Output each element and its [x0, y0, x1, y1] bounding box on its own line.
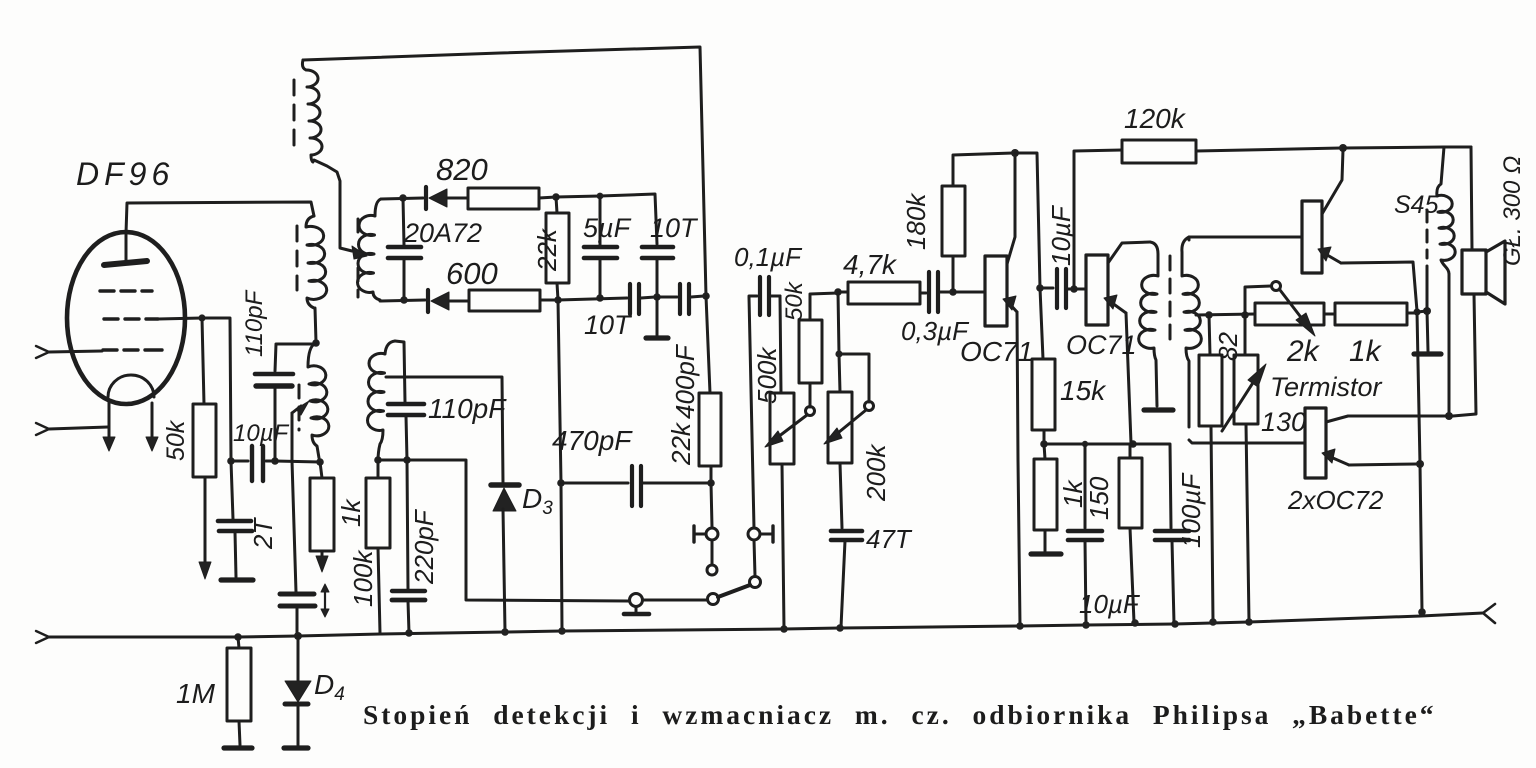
capacitor 2T with ground	[218, 461, 253, 580]
transistor Q1 OC71	[953, 149, 1024, 630]
svg-text:1k: 1k	[1349, 335, 1383, 368]
wire: tap arrow riser	[292, 401, 309, 461]
wire: coil bottom to tuned node	[312, 308, 320, 347]
capacitor (tuning, unlabeled)	[388, 198, 421, 300]
capacitor 400pF	[657, 284, 710, 314]
wire: emitter rail to bus	[1417, 312, 1426, 616]
resistor 4.7k	[838, 282, 926, 304]
wire: bottom supply bus	[36, 604, 1495, 643]
potentiometer 2k (rheostat)	[1245, 282, 1335, 337]
svg-text:5µF: 5µF	[583, 213, 632, 243]
svg-text:OC71: OC71	[1066, 330, 1137, 360]
capacitor 5uF	[584, 196, 617, 302]
wire: detector node to switch line	[378, 460, 629, 601]
ground stub (emitter node)	[1414, 266, 1441, 354]
ground stub of T3 primary	[1144, 407, 1173, 412]
inductor L2 (detector transformer secondary w/ tap arrow)	[308, 343, 329, 458]
wire: secondary bottom lead	[380, 296, 425, 304]
capacitor 110pF (IF bypass)	[255, 344, 316, 465]
diode D1 (20A72 upper)	[426, 187, 468, 209]
capacitor 220pF	[392, 456, 425, 637]
wire: primary to secondary tap arrow	[314, 160, 367, 259]
svg-text:150: 150	[1084, 476, 1114, 520]
resistor 820	[468, 188, 560, 209]
core of S45 (dashed)	[1426, 210, 1429, 258]
capacitor 10uF	[231, 446, 272, 481]
svg-text:200k: 200k	[861, 443, 891, 502]
grounded terminal circle	[624, 594, 649, 615]
svg-text:10T: 10T	[584, 310, 633, 340]
core of T3 (dashed)	[1169, 256, 1172, 340]
wire: secondary top to upper OC72 base	[1189, 237, 1302, 240]
capacitor 470pF	[561, 466, 709, 506]
wire: collector node to coupling	[1015, 153, 1044, 292]
wire: 600 branch down line	[557, 300, 566, 635]
wire: secondary top lead	[381, 194, 423, 202]
capacitor 100uF	[1133, 444, 1189, 628]
svg-text:10µF: 10µF	[1046, 204, 1076, 266]
transistor Q4 OC72 (lower)	[1305, 408, 1446, 478]
resistor 22k (volume feed)	[699, 296, 721, 527]
svg-text:Termistor: Termistor	[1270, 372, 1383, 402]
svg-text:50k: 50k	[162, 419, 190, 461]
inductor L5 (AM detector coil)	[368, 341, 395, 461]
svg-text:1k: 1k	[336, 498, 366, 527]
capacitor 10uF (emitter bypass)	[1068, 441, 1102, 629]
svg-text:820: 820	[436, 152, 488, 187]
inductor T3 secondary	[1182, 237, 1201, 427]
svg-text:220pF: 220pF	[409, 508, 439, 585]
diode D4 with ground	[284, 632, 311, 748]
resistor 1k (divider) with ground	[1031, 444, 1061, 554]
loudspeaker GL 300 ohm	[1453, 147, 1505, 416]
transistor Q3 OC72 (upper)	[1302, 150, 1417, 311]
svg-text:2xOC72: 2xOC72	[1287, 485, 1384, 515]
wire: grid lead to node	[158, 314, 206, 321]
svg-text:180k: 180k	[901, 192, 931, 250]
wire: top branch to 10T	[556, 193, 657, 244]
switch contact A (from detector)	[694, 526, 718, 575]
svg-text:400pF: 400pF	[670, 343, 700, 419]
core of top transformer (dashed)	[293, 80, 296, 146]
resistor 1k (detector load)	[310, 462, 334, 572]
ground stub under 10T	[646, 297, 668, 338]
svg-text:120k: 120k	[1124, 103, 1187, 134]
potentiometer 500k (volume)	[765, 296, 815, 633]
svg-text:500k: 500k	[752, 346, 782, 404]
capacitor 47T	[831, 531, 862, 632]
wire: top supply line	[303, 47, 706, 296]
resistor 15k	[1032, 288, 1055, 448]
capacitor 10uF (interstage coupling)	[1040, 269, 1078, 308]
svg-text:Stopień detekcji i wzmacniacz: Stopień detekcji i wzmacniacz m. cz. odb…	[363, 699, 1434, 730]
svg-text:100µF: 100µF	[1176, 472, 1206, 548]
thermistor 130	[1222, 315, 1266, 626]
svg-text:15k: 15k	[1060, 375, 1107, 406]
inductor T3 primary (driver transformer)	[1139, 242, 1158, 406]
svg-text:22k: 22k	[532, 227, 562, 272]
resistor 50k (grid leak)	[193, 318, 216, 579]
capacitor 0.1uF (coupling to volume pot)	[749, 277, 780, 528]
svg-text:DF96: DF96	[76, 156, 174, 192]
svg-text:2k: 2k	[1286, 335, 1321, 368]
svg-text:D3: D3	[522, 483, 553, 519]
resistor 1k (emitter bias)	[1335, 303, 1431, 325]
resistor 150	[1119, 444, 1142, 627]
resistor 600	[469, 290, 562, 311]
switch contact B (to volume)	[748, 526, 773, 588]
svg-text:470pF: 470pF	[552, 425, 633, 456]
resistor 82	[1199, 315, 1222, 626]
wire: top rail to output	[1343, 147, 1471, 148]
inductor L3 (top coil, ratio detector primary)	[302, 60, 322, 162]
wire: anode lead to IF transformer	[126, 202, 314, 233]
inductor L1 (IF transformer primary, anode side)	[306, 216, 327, 308]
svg-text:S45: S45	[1394, 191, 1439, 219]
svg-text:600: 600	[446, 256, 498, 291]
svg-text:0,1µF: 0,1µF	[734, 242, 803, 272]
svg-text:2T: 2T	[248, 517, 278, 550]
wire: secondary bottom to lower OC72 base	[1189, 440, 1304, 443]
svg-text:22k: 22k	[666, 421, 696, 466]
transistor Q2 OC71	[1074, 242, 1150, 443]
resistor 100k	[366, 456, 390, 633]
inductor L4 (ratio detector secondary)	[358, 199, 381, 300]
wire: grid node down to cathode row	[202, 318, 235, 465]
svg-text:47T: 47T	[866, 524, 913, 554]
svg-text:10T: 10T	[650, 213, 699, 243]
resistor 120k (output feedback)	[1074, 140, 1347, 289]
svg-text:20A72: 20A72	[403, 218, 482, 248]
wire: cathode row to 1k node	[275, 458, 324, 466]
diode D3	[491, 485, 519, 636]
capacitor 110pF (detector tank)	[388, 341, 424, 460]
svg-text:82: 82	[1213, 332, 1243, 361]
svg-text:GŁ. 300 Ω: GŁ. 300 Ω	[1499, 156, 1526, 266]
resistor 22k (between branches)	[546, 197, 569, 300]
capacitor 0.3uF	[929, 272, 957, 312]
capacitor 10T (horizontal)	[630, 284, 661, 314]
wire: S45 bottom to collector node	[1445, 274, 1453, 420]
resistor 1M	[224, 633, 252, 748]
diode D2 (20A72 lower)	[428, 290, 469, 312]
svg-text:110pF: 110pF	[241, 289, 268, 357]
core of IF transformer (dashed)	[296, 226, 299, 290]
wire: secondary tap	[1196, 311, 1255, 319]
transformer S45 (output choke)	[1437, 147, 1455, 274]
svg-text:OC71: OC71	[960, 336, 1033, 367]
svg-text:110pF: 110pF	[428, 393, 507, 424]
svg-text:D4: D4	[314, 669, 345, 705]
svg-text:130: 130	[1261, 407, 1306, 437]
svg-text:1M: 1M	[176, 678, 216, 709]
wire: emitter node row	[1044, 440, 1137, 448]
core of detector transformer lower (dashed)	[298, 385, 301, 430]
core of ratio detector (dashed)	[357, 219, 360, 297]
trimmer capacitor (variable)	[280, 461, 329, 634]
capacitor 10T (vertical)	[642, 247, 673, 296]
svg-text:50k: 50k	[781, 280, 808, 321]
vacuum tube V1 DF96	[67, 232, 185, 451]
wire: filament input with arrow	[36, 423, 108, 435]
resistor 180k (feedback bias)	[942, 153, 1013, 292]
wire: bottom branch	[558, 298, 627, 300]
resistor 50k (wiper series)	[799, 288, 842, 407]
wire: detector tap to D3	[386, 377, 503, 483]
switch lever	[643, 585, 750, 605]
svg-text:10µF: 10µF	[233, 420, 290, 447]
potentiometer 200k (tone)	[824, 292, 874, 528]
svg-text:100k: 100k	[348, 549, 378, 607]
wire: grid input with arrow	[36, 346, 102, 358]
svg-text:4,7k: 4,7k	[843, 249, 898, 280]
